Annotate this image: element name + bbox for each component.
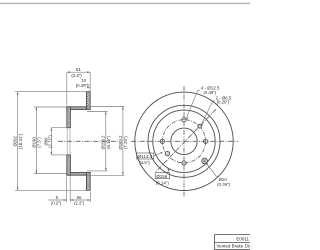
svg-text:(7.25"): (7.25") [123,136,128,149]
svg-text:[0.39"]: [0.39"] [76,83,88,88]
svg-text:56: 56 [77,195,82,200]
svg-text:(2.72"): (2.72") [47,135,52,148]
svg-text:(0.2"): (0.2") [51,201,62,206]
svg-text:[10.31"]: [10.31"] [18,134,23,149]
svg-text:61: 61 [76,67,81,72]
svg-text:(0.39"): (0.39") [217,182,230,187]
svg-text:Ø156.2: Ø156.2 [101,135,106,150]
svg-text:[4.5"]: [4.5"] [140,160,150,165]
svg-text:Ø184.2: Ø184.2 [118,135,123,150]
svg-text:Vented Brake Disc: Vented Brake Disc [216,244,250,249]
svg-text:5: 5 [56,195,59,200]
svg-text:E0011: E0011 [236,237,249,242]
svg-text:(6.15"): (6.15") [106,136,111,149]
svg-text:[0.26"]: [0.26"] [217,100,229,105]
svg-text:(7.5"): (7.5") [37,137,42,148]
svg-text:(2.2"): (2.2") [74,201,85,206]
svg-text:Ø262: Ø262 [12,135,17,146]
svg-text:Ø156: Ø156 [156,174,167,179]
svg-text:Ø114.3: Ø114.3 [138,154,153,159]
svg-text:Ø190: Ø190 [31,137,36,148]
svg-text:(6.14"): (6.14") [156,180,170,185]
